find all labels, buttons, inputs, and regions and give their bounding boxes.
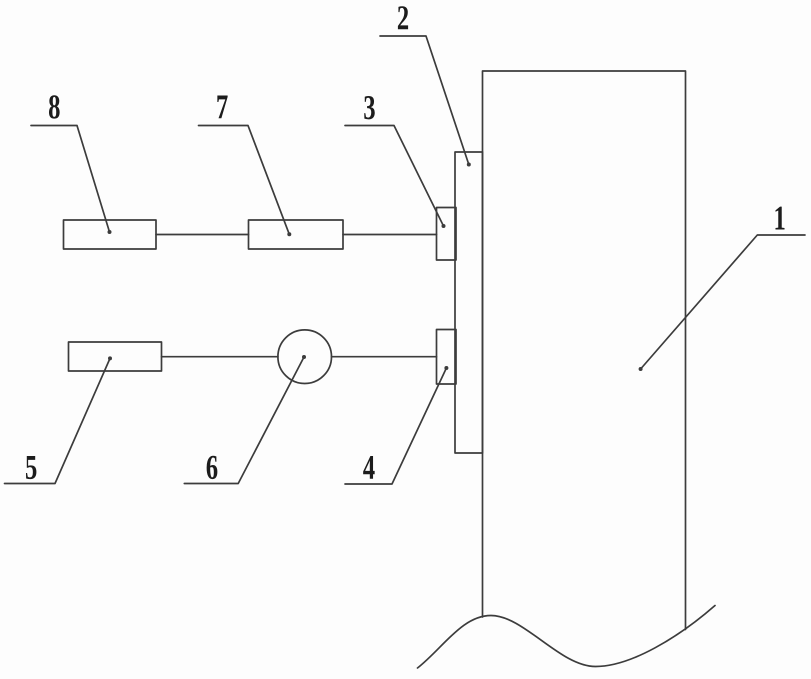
- label 1: [775, 207, 784, 230]
- leader line for label 1: [641, 235, 805, 369]
- label 5: [26, 456, 36, 479]
- mounting bar 2 (vertical strip on left side of body 1): [455, 152, 483, 453]
- leader dot 1: [639, 367, 643, 371]
- leader dot 4: [444, 366, 448, 370]
- break wave at bottom of body 1: [418, 606, 716, 669]
- leader dot 7: [287, 232, 291, 236]
- label 3: [364, 96, 375, 119]
- label 8: [49, 95, 60, 118]
- wire box7 to block3: [343, 234, 437, 236]
- label 6: [207, 456, 218, 479]
- label 4: [363, 456, 374, 479]
- leader line for label 6: [184, 357, 304, 484]
- leader dot 5: [108, 356, 112, 360]
- box 7 (upper-middle rectangle): [249, 220, 344, 249]
- label 2: [398, 6, 408, 29]
- leader line for label 7: [199, 126, 290, 235]
- main body 1 (large rectangle, open bottom): [483, 71, 686, 630]
- leader dot 3: [442, 224, 446, 228]
- leader dot 2: [467, 163, 471, 167]
- box 5 (lower-left rectangle): [69, 342, 162, 371]
- leader line for label 2: [380, 36, 469, 165]
- circle 6: [278, 330, 332, 384]
- leader line for label 4: [345, 368, 446, 484]
- leader dot 8: [108, 230, 112, 234]
- block 3 (small box on bar 2, upper): [437, 208, 457, 261]
- wire circle6 to block4: [332, 356, 437, 358]
- box 8 (upper-left rectangle): [64, 220, 157, 249]
- leader line for label 8: [31, 126, 110, 233]
- label 7: [217, 96, 227, 119]
- block 4 (small box on bar 2, lower): [437, 330, 457, 385]
- leader line for label 5: [5, 358, 111, 483]
- wire box5 to circle6: [162, 356, 278, 358]
- leader line for label 3: [345, 126, 444, 227]
- wire box8 to box7: [156, 234, 249, 236]
- leader dot 6: [302, 355, 306, 359]
